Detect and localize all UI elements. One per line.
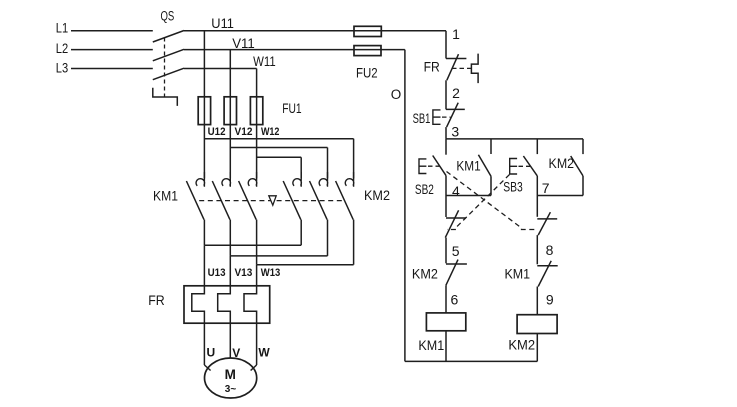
wire W11 drop [256, 69, 258, 97]
SB1 blade [447, 103, 459, 127]
contactor main contact KM2 pole1 [293, 172, 302, 187]
wire merge V13 [230, 255, 327, 257]
svg-text:W11: W11 [253, 54, 276, 69]
svg-text:KM2: KM2 [508, 337, 535, 353]
wire KM2 pole3 drop [353, 139, 355, 179]
wire node8 [536, 235, 538, 264]
wire node6 [445, 285, 447, 313]
fuse FU1c [250, 97, 262, 125]
switch QS blade 3 [153, 68, 184, 80]
interlock dashed SB2 to right NC [447, 172, 537, 230]
wire KM1 pole3 bottom [256, 220, 258, 265]
SB1 actuator mid arm [433, 116, 441, 118]
svg-text:KM1: KM1 [456, 159, 480, 174]
svg-text:4: 4 [452, 183, 460, 199]
svg-text:U11: U11 [211, 16, 234, 31]
svg-text:SB2: SB2 [415, 182, 434, 197]
left NC1 tick [446, 217, 466, 219]
SB3 top stub [536, 139, 538, 154]
wire through FU1a [203, 97, 205, 125]
svg-text:KM2: KM2 [364, 187, 390, 203]
wire FR to motor U [203, 323, 205, 365]
svg-text:KM1: KM1 [505, 266, 531, 282]
wire QS to FU2b [184, 49, 354, 51]
svg-text:V13: V13 [234, 267, 252, 279]
KM2 aux blade [571, 156, 583, 176]
wire U12 to KM2 pole3 [204, 138, 353, 140]
wire L2 in [71, 49, 153, 51]
FR NC tick [446, 58, 466, 60]
wire QS to W11 [184, 68, 257, 70]
coil KM2 [517, 315, 557, 334]
svg-text:FU1: FU1 [282, 100, 302, 116]
svg-text:L2: L2 [56, 41, 68, 56]
thermal relay FR box [184, 286, 270, 323]
svg-text:W12: W12 [261, 126, 280, 138]
SB3 actuator E [510, 159, 517, 175]
SB3 blade [523, 156, 537, 176]
svg-text:O: O [391, 87, 402, 102]
wire node5 [445, 238, 447, 264]
wire through FU2b [354, 49, 382, 51]
svg-text:U12: U12 [208, 126, 226, 138]
KM1 aux blade [478, 155, 491, 176]
SB2 actuator dashed [428, 165, 443, 167]
KM2 aux bottom [582, 176, 584, 196]
contactor main contact KM1 pole3 [248, 172, 257, 187]
svg-text:1: 1 [452, 26, 460, 42]
KM1 aux bottom [490, 176, 492, 195]
svg-text:FR: FR [148, 292, 165, 308]
SB2 top stub [445, 139, 447, 155]
QS handle [153, 88, 178, 106]
wire QS to FU2a [184, 30, 354, 32]
svg-text:3: 3 [451, 123, 459, 139]
fuse FU2b [354, 46, 381, 56]
wire KM1 pole1 bottom [203, 220, 205, 246]
wire W12 to KM2 pole1 [257, 156, 302, 158]
svg-text:V11: V11 [232, 36, 255, 51]
fuse FU2a [354, 26, 381, 36]
contactor main contact KM2 pole2 [319, 172, 328, 187]
FR NC blade [447, 54, 459, 80]
svg-text:7: 7 [542, 180, 550, 196]
motor M [205, 358, 257, 398]
svg-text:U: U [206, 345, 215, 359]
svg-text:SB3: SB3 [503, 180, 523, 195]
wire L1 in [71, 30, 153, 32]
SB2 actuator mid arm [419, 165, 426, 167]
wire L3 in [71, 68, 153, 70]
right NC1 tick [537, 218, 557, 220]
KM1 NC blade [538, 261, 551, 287]
KM1 NC tick [537, 265, 557, 267]
KM2 NC tick [446, 263, 467, 265]
wire O line [404, 50, 406, 362]
FR heater element a [192, 245, 205, 323]
wire through FU1b [229, 97, 231, 125]
wire merge node7 [537, 195, 583, 197]
wire motor lead U bend [204, 365, 210, 371]
wire FR to motor W [256, 323, 258, 365]
SB3 actuator mid arm [510, 165, 517, 167]
svg-text:KM1: KM1 [418, 337, 444, 353]
wire KM2 pole3 bottom [353, 220, 355, 265]
wire merge W13 [257, 264, 354, 266]
wire through FU2a [354, 30, 382, 32]
SB1 actuator E [433, 110, 441, 124]
mechanical interlock triangle [269, 196, 276, 205]
QS linkage dashed [164, 38, 166, 98]
wire node9 [536, 287, 538, 315]
wire motor lead W bend [251, 365, 257, 371]
svg-text:QS: QS [161, 8, 175, 23]
wire U11 drop [203, 31, 205, 97]
wire through FU1c [256, 97, 258, 125]
svg-text:3~: 3~ [225, 384, 237, 395]
FR heater element b [218, 256, 231, 323]
contactor main contact KM1 pole2 [222, 172, 231, 187]
wire FU2b to O line [382, 49, 405, 51]
wire U12 column [203, 125, 205, 179]
svg-text:5: 5 [452, 243, 460, 259]
svg-text:M: M [225, 367, 236, 382]
svg-text:V12: V12 [235, 126, 253, 138]
wire W12 column [256, 125, 258, 179]
wire node1 drop [445, 31, 447, 59]
SB1 tick [446, 108, 465, 110]
FR trip element [471, 54, 478, 84]
coil KM1 [426, 313, 465, 331]
KM2 aux top stub [582, 139, 584, 154]
wire KM2 pole1 bottom [300, 220, 302, 246]
wire bottom bus [405, 360, 537, 362]
svg-text:FR: FR [424, 59, 440, 75]
switch QS blade 2 [153, 49, 184, 61]
svg-text:SB1: SB1 [413, 111, 431, 126]
wire KM2 pole1 drop [300, 157, 302, 178]
fuse FU1b [224, 97, 236, 125]
wire V11 drop [229, 50, 231, 97]
KM2 NC blade [446, 260, 458, 286]
svg-text:KM2: KM2 [549, 156, 575, 171]
svg-text:L1: L1 [56, 21, 68, 36]
wire node2 [445, 80, 447, 109]
svg-text:U13: U13 [208, 267, 226, 279]
svg-text:W: W [258, 345, 270, 359]
SB2 blade [433, 156, 446, 176]
wire KM2 pole2 drop [327, 148, 329, 179]
wire KM2 pole2 bottom [327, 220, 329, 256]
wire KM1 pole2 bottom [229, 220, 231, 256]
contactor main contact KM1 pole1 [196, 172, 205, 187]
left NC1 blade [445, 210, 458, 237]
SB3 actuator dashed [519, 165, 531, 167]
svg-text:8: 8 [546, 242, 554, 258]
switch QS blade 1 [153, 31, 184, 43]
svg-text:FU2: FU2 [356, 64, 378, 80]
svg-text:KM2: KM2 [412, 266, 438, 282]
svg-text:2: 2 [452, 85, 460, 101]
wire FU2a to node 1 [382, 30, 446, 32]
FR NC dashed link [452, 67, 471, 69]
wire node3 bus [446, 138, 583, 140]
svg-text:L3: L3 [56, 61, 68, 76]
wire KM2 coil to bus [536, 334, 538, 362]
wire KM1 coil to bus [445, 331, 447, 362]
SB1 actuator dashed [442, 116, 451, 118]
right NC1 blade [538, 212, 550, 235]
interlock dashed SB3 to left NC [447, 175, 510, 230]
wire V12 to KM2 pole2 [230, 147, 327, 149]
fuse FU1a [198, 97, 210, 125]
wire V12 column [229, 125, 231, 179]
FR heater element c [244, 265, 257, 324]
KM1 aux top stub [490, 139, 492, 154]
wire FR to motor V [229, 323, 231, 358]
wire node3 drop [445, 127, 447, 139]
KM1-KM2 linkage dashed [199, 200, 343, 202]
svg-text:9: 9 [546, 291, 554, 307]
wire SB3 to node7/NC [536, 176, 538, 217]
SB2 actuator E [419, 159, 426, 174]
wire SB2 to node4/NC [445, 176, 447, 217]
svg-text:KM1: KM1 [153, 188, 178, 204]
svg-text:6: 6 [451, 292, 459, 308]
contactor main contact KM2 pole3 [345, 172, 354, 187]
wire merge U13 [204, 244, 301, 246]
wire merge node4 [446, 195, 491, 197]
svg-text:W13: W13 [261, 267, 281, 279]
